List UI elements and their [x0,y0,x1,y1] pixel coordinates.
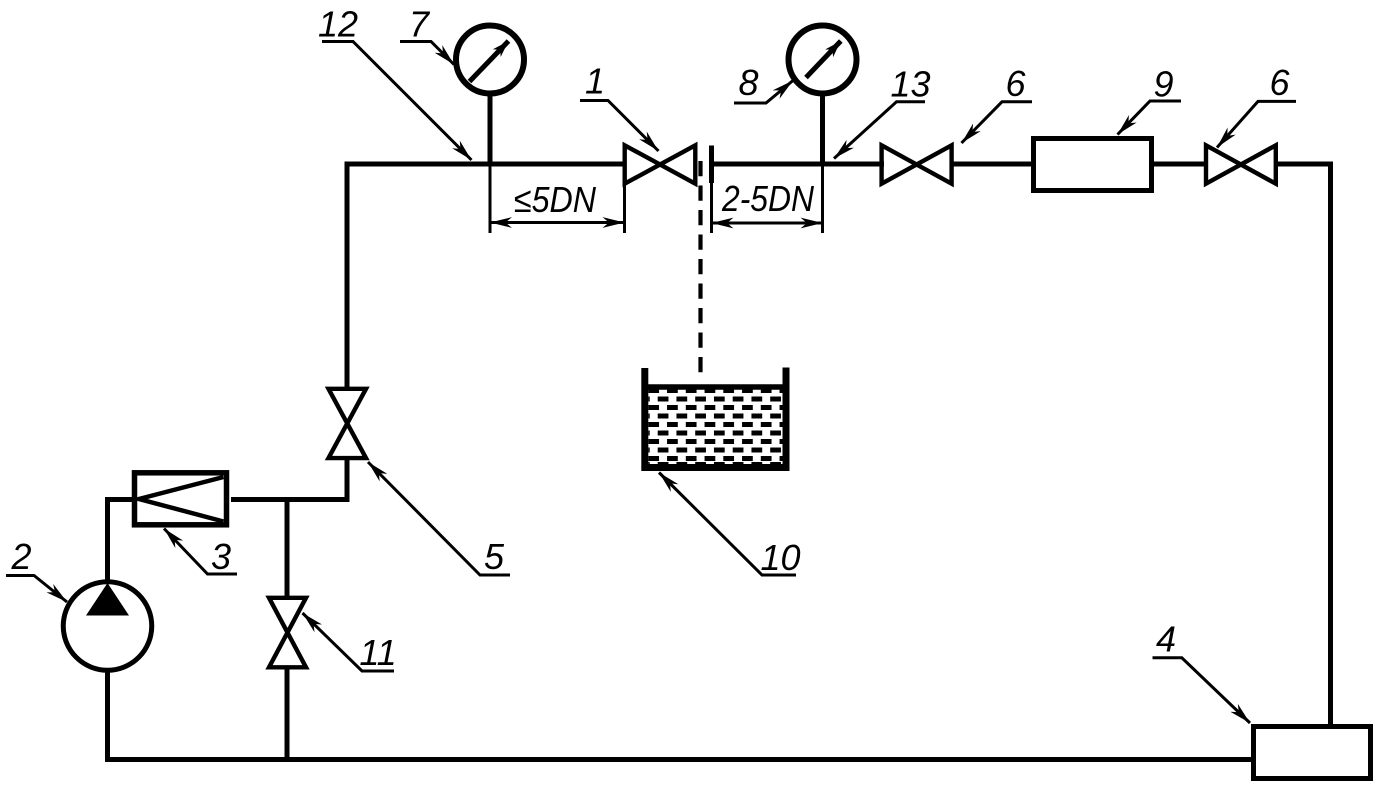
svg-text:3: 3 [211,536,231,577]
svg-text:2-5DN: 2-5DN [721,178,815,219]
svg-text:10: 10 [760,537,800,578]
svg-text:7: 7 [409,4,431,45]
svg-text:6: 6 [1005,63,1026,104]
svg-text:9: 9 [1153,64,1173,105]
svg-text:12: 12 [318,4,358,45]
svg-text:8: 8 [738,62,758,103]
svg-text:≤5DN: ≤5DN [514,179,597,220]
svg-text:2: 2 [10,536,31,577]
svg-text:4: 4 [1156,619,1176,660]
svg-text:5: 5 [484,536,505,577]
svg-text:13: 13 [890,64,930,105]
svg-text:11: 11 [359,632,396,673]
svg-text:6: 6 [1269,62,1290,103]
svg-text:1: 1 [585,61,605,102]
